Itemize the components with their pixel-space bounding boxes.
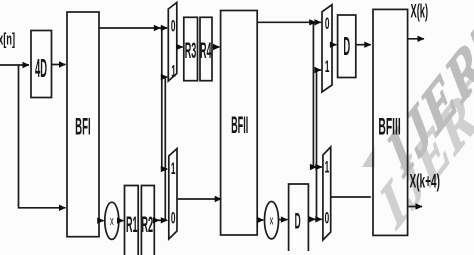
- svg-text:0: 0: [171, 16, 176, 35]
- svg-text:R4: R4: [200, 38, 212, 63]
- svg-text:D: D: [343, 32, 350, 61]
- arrowhead junction A2: [309, 19, 316, 25]
- svg-text:R2: R2: [142, 212, 154, 237]
- arrowhead into R3: [176, 44, 183, 50]
- wire node A down to mux2 sel1: [162, 28, 167, 169]
- arrowhead into mux3 in0: [315, 216, 322, 222]
- arrowhead into mux1 in1: [161, 74, 168, 80]
- delay D2 box: [338, 15, 356, 78]
- butterfly BFIII box: [373, 9, 408, 235]
- wire BFII top output to mux4: [257, 21, 321, 23]
- wire BFII bottom output to multiplier 2: [257, 219, 263, 221]
- mux4: [322, 5, 332, 92]
- svg-text:4D: 4D: [35, 54, 47, 83]
- arrowhead into mux2 in1: [161, 166, 168, 172]
- wire node B2 feedback to mux4 sel1: [317, 70, 321, 219]
- watermark IJERT shadow: [375, 0, 474, 245]
- svg-text:x[n]: x[n]: [0, 30, 15, 49]
- arrowhead into BFI bottom: [59, 205, 66, 211]
- register R4: [200, 17, 212, 80]
- wire mux4 to D2: [332, 44, 336, 46]
- svg-text:D: D: [295, 209, 301, 234]
- arrowhead junction B2: [309, 216, 316, 222]
- delay 4D box: [31, 31, 52, 98]
- svg-text:BFII: BFII: [231, 112, 248, 138]
- arrowhead into mux2 in0: [161, 217, 168, 223]
- wire node A2 down to mux3 sel1: [313, 22, 321, 167]
- svg-text:X(k): X(k): [411, 1, 429, 23]
- wire mux3 to BFIII lower input: [331, 196, 371, 198]
- arrowhead junction A: [154, 25, 161, 31]
- arrowhead into D1: [281, 216, 288, 222]
- arrowhead into D2: [330, 42, 337, 48]
- arrowhead output X(k+4): [416, 203, 423, 209]
- arrowhead into BFIII top: [364, 42, 371, 48]
- mux1: [168, 3, 177, 82]
- arrowhead into mux3 in1: [315, 164, 322, 170]
- arrowhead into multiplier 2: [257, 217, 264, 223]
- register R1: [125, 186, 139, 255]
- svg-text:x: x: [110, 214, 114, 229]
- svg-text:1: 1: [171, 159, 176, 178]
- delay D1 box: [289, 184, 309, 251]
- svg-text:R1: R1: [126, 212, 138, 237]
- arrowhead into mux4 in0: [314, 19, 321, 25]
- arrowhead into BFI top: [59, 61, 66, 67]
- svg-text:1: 1: [171, 61, 176, 80]
- mux3: [323, 147, 331, 240]
- svg-text:0: 0: [325, 208, 330, 227]
- arrowhead into mux4 in1: [314, 67, 321, 73]
- wire D2 to BFIII: [356, 44, 371, 46]
- arrowhead into R1: [117, 217, 124, 223]
- arrowhead into multiplier 1: [97, 217, 104, 223]
- svg-text:0: 0: [171, 208, 176, 227]
- wire R4 to BFII: [212, 46, 219, 48]
- svg-text:X(k+4): X(k+4): [410, 171, 440, 192]
- wire BFI bottom output to multiplier: [99, 220, 104, 222]
- arrowhead output X(k): [418, 36, 425, 42]
- svg-text:0: 0: [325, 14, 330, 33]
- wire 4D to BFI: [52, 64, 66, 66]
- wire input x[n]: [0, 64, 29, 66]
- multiplier 2: [265, 202, 279, 239]
- wire output X(k+4): [408, 206, 422, 208]
- svg-text:R3: R3: [185, 38, 197, 63]
- arrowhead into BFII top: [213, 44, 220, 50]
- arrowhead junction B: [153, 217, 160, 223]
- wire BFI top output to mux1: [99, 27, 167, 29]
- svg-text:BFIII: BFIII: [378, 112, 400, 139]
- register R3: [184, 17, 198, 80]
- arrowhead junction into mux3 in1: [310, 164, 317, 170]
- svg-text:1: 1: [325, 57, 330, 76]
- wire branch down to lower path: [19, 65, 66, 208]
- mux2: [169, 149, 177, 240]
- wire R2 to mux2: [154, 219, 167, 221]
- wire output X(k): [408, 38, 424, 40]
- svg-text:BFI: BFI: [75, 112, 90, 140]
- wire multiplier 2 to D1: [279, 219, 288, 221]
- arrowhead into 4D: [23, 62, 30, 68]
- wire D1 to mux3: [308, 218, 321, 220]
- wire mux2 to BFII lower input: [177, 198, 221, 200]
- wire multiplier to R1: [119, 220, 124, 222]
- register R2: [141, 186, 154, 255]
- svg-text:x: x: [270, 214, 274, 229]
- arrowhead into BFII bottom: [215, 196, 222, 202]
- watermark letter tip: [362, 147, 375, 168]
- wire mux1 to R3: [177, 46, 183, 48]
- arrowhead into mux1 in0: [161, 25, 168, 31]
- butterfly BFI box: [67, 12, 99, 237]
- multiplier 1: [105, 202, 119, 239]
- svg-text:1: 1: [325, 157, 330, 176]
- wire node B feedback to mux1 sel1: [165, 77, 167, 220]
- butterfly BFII box: [221, 11, 258, 236]
